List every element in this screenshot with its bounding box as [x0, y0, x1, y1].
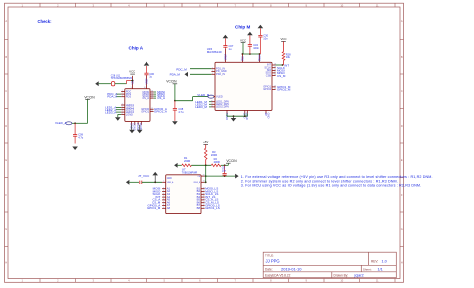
svg-text:TITLE:: TITLE:	[265, 254, 274, 258]
svg-text:VREF_A: VREF_A	[167, 181, 174, 184]
svg-text:100n: 100n	[253, 46, 259, 50]
svg-text:2019-01-10: 2019-01-10	[281, 267, 302, 272]
chip M right pins SPI	[272, 64, 276, 66]
frame ticks sides	[5, 40, 404, 247]
wire OE row	[205, 175, 236, 177]
svg-text:1.0: 1.0	[382, 260, 387, 264]
svg-text:18: 18	[203, 187, 205, 189]
ground arrow left of R1	[174, 163, 178, 168]
chip M VDD pin	[241, 54, 243, 62]
svg-text:1: 1	[163, 181, 164, 183]
wire +5V to R3	[205, 144, 207, 148]
resistor R2	[211, 164, 221, 167]
svg-text:2: 2	[212, 67, 213, 69]
svg-text:15: 15	[203, 196, 205, 198]
chip A right pins GPIO	[150, 108, 154, 110]
svg-text:D: D	[5, 124, 7, 128]
svg-text:Check:: Check:	[38, 19, 52, 24]
ground below LGND	[115, 117, 121, 121]
chip A left pins LED	[121, 104, 125, 106]
wire VCCIN mid down	[174, 84, 176, 101]
svg-text:GPIO2: GPIO2	[263, 87, 271, 91]
wire MOSI	[154, 91, 156, 93]
svg-text:5: 5	[163, 196, 164, 198]
frame ticks top	[40, 3, 395, 7]
svg-text:CS_A: CS_A	[157, 96, 165, 100]
svg-text:200R: 200R	[214, 160, 220, 164]
svg-text:8: 8	[122, 113, 123, 115]
svg-text:PDC_M: PDC_M	[176, 68, 187, 72]
svg-text:jcjar2: jcjar2	[354, 274, 364, 278]
wire arrow to cap	[129, 181, 139, 183]
svg-text:PD2_IN: PD2_IN	[216, 72, 225, 76]
frame ticks bottom	[40, 279, 395, 283]
svg-text:5: 5	[241, 60, 242, 62]
svg-text:GND: GND	[167, 178, 172, 180]
svg-text:1/1: 1/1	[378, 268, 383, 272]
svg-text:C: C	[401, 89, 403, 93]
junction VLED_A	[74, 122, 76, 124]
ground chip M bottom	[233, 116, 235, 118]
wire chip M gnd bus	[226, 114, 228, 117]
chip A right pins SPI	[150, 91, 154, 93]
svg-text:4.7u: 4.7u	[178, 110, 184, 114]
wire C28 to U11	[115, 83, 127, 85]
op: chip M section	[170, 25, 292, 122]
capacitor C30	[259, 28, 261, 35]
svg-text:Drawn By:: Drawn By:	[334, 274, 349, 278]
resistor R3	[204, 148, 207, 159]
svg-text:17: 17	[203, 190, 205, 192]
svg-text:3: 3	[122, 95, 123, 97]
svg-text:4: 4	[163, 193, 164, 195]
svg-text:REV:: REV:	[371, 260, 378, 264]
svg-text:LGND: LGND	[126, 112, 133, 116]
svg-text:Date:: Date:	[265, 267, 273, 271]
svg-text:B8: B8	[197, 206, 201, 210]
svg-text:10: 10	[144, 87, 146, 89]
svg-text:A8: A8	[167, 206, 171, 210]
svg-text:19: 19	[274, 66, 276, 68]
wire R2 to VCCIN	[221, 164, 228, 166]
chip A bottom pins	[131, 121, 133, 124]
chip M VREF pin	[224, 49, 226, 63]
wire from arrow to C28	[99, 83, 112, 85]
wire R3 to rail	[205, 160, 207, 166]
capacitor C06	[146, 66, 148, 73]
wire VREF_B row	[205, 181, 206, 183]
notes text	[241, 175, 433, 187]
wire LED1_M	[209, 101, 211, 103]
chip A left pins PD	[121, 91, 125, 93]
resistor R28	[282, 52, 285, 61]
svg-text:G: G	[5, 227, 7, 231]
capacitor C09	[74, 123, 76, 134]
svg-text:H: H	[401, 261, 403, 265]
svg-text:CS_M: CS_M	[277, 74, 286, 78]
ground arrow right of C8	[235, 174, 239, 179]
svg-text:TXB0108PWR: TXB0108PWR	[182, 171, 198, 174]
capacitor C08	[174, 101, 176, 109]
svg-text:10k: 10k	[286, 55, 291, 59]
capacitor C28 (series)	[111, 82, 114, 86]
svg-text:GPIO2_M: GPIO2_M	[277, 88, 291, 92]
svg-text:20: 20	[274, 64, 276, 66]
sheet frame inner	[8, 7, 400, 279]
svg-text:D: D	[401, 124, 403, 128]
svg-text:C: C	[5, 89, 7, 93]
wire CS_A	[154, 97, 156, 99]
svg-text:19: 19	[203, 181, 205, 183]
svg-text:16: 16	[274, 74, 276, 76]
capacitor C8	[224, 165, 226, 173]
svg-text:9: 9	[212, 95, 213, 97]
IC U15 chip M body	[215, 62, 272, 110]
svg-text:3: 3	[212, 70, 213, 72]
svg-text:VREF: VREF	[225, 53, 227, 60]
wire VLED_M step	[192, 97, 194, 101]
svg-text:Sheet:: Sheet:	[363, 267, 372, 271]
svg-text:12: 12	[211, 106, 213, 108]
svg-text:Chip M: Chip M	[235, 24, 250, 29]
svg-text:GPIO1_M: GPIO1_M	[147, 206, 161, 210]
svg-text:E: E	[5, 158, 7, 162]
chip A VREF pin	[146, 75, 148, 89]
wire MISO	[154, 93, 156, 95]
ground above C34	[247, 32, 253, 36]
svg-text:EasyEDA V5.8.22: EasyEDA V5.8.22	[265, 274, 291, 278]
chip A VDD pin	[132, 76, 134, 89]
svg-text:VLED_M: VLED_M	[197, 93, 210, 97]
ground arrow left	[95, 81, 99, 86]
svg-text:9: 9	[131, 87, 132, 89]
svg-text:17: 17	[274, 72, 276, 74]
wire LED2_A	[116, 109, 121, 111]
wire VCC bus	[242, 53, 259, 55]
svg-text:A: A	[5, 19, 7, 23]
resistor R1	[182, 164, 192, 167]
svg-text:LED3_A: LED3_A	[105, 110, 116, 114]
svg-text:9: 9	[163, 207, 164, 209]
wire R1 to junction	[191, 164, 211, 166]
svg-text:TPS7A0518PDBVR: TPS7A0518PDBVR	[111, 77, 132, 80]
ground above C06	[144, 62, 150, 66]
svg-text:PDS: PDS	[126, 95, 132, 99]
svg-text:VCC: VCC	[240, 39, 246, 43]
svg-text:7: 7	[163, 201, 164, 203]
svg-text:13: 13	[274, 88, 276, 90]
svg-text:GPIO1_LS: GPIO1_LS	[205, 206, 220, 210]
wire VCC to R28	[283, 41, 285, 51]
title block	[263, 252, 396, 278]
ground arrow left of PDA_M	[185, 72, 189, 77]
wire VLED_M horizontal	[175, 100, 193, 102]
ground below C08	[172, 121, 178, 125]
op: level shifter section	[126, 140, 237, 213]
wire VCCIN down	[87, 99, 89, 123]
svg-text:13: 13	[203, 201, 205, 203]
svg-text:CSB: CSB	[266, 73, 272, 77]
svg-text:11: 11	[203, 207, 205, 209]
svg-text:6: 6	[163, 199, 164, 201]
svg-text:VCC: VCC	[280, 37, 286, 41]
svg-text:MAX86140: MAX86140	[207, 50, 222, 54]
wire R28 to INT	[283, 60, 285, 65]
svg-text:G: G	[401, 227, 403, 231]
ground above C30	[258, 25, 264, 29]
svg-text:GPIO1: GPIO1	[141, 109, 149, 113]
wire INT to R28	[276, 64, 283, 66]
ground arrow left of C	[126, 180, 129, 185]
wire cap to VREF_A	[142, 181, 162, 183]
chip M VLED pin	[214, 96, 216, 98]
svg-text:LED3_DRV: LED3_DRV	[216, 105, 229, 109]
svg-text:A: A	[401, 19, 403, 23]
IC U11 chip A body	[125, 89, 150, 122]
svg-text:13: 13	[151, 97, 153, 99]
svg-text:200R: 200R	[184, 159, 190, 163]
svg-text:VCCIN: VCCIN	[84, 95, 95, 99]
svg-text:10n: 10n	[222, 168, 227, 172]
junction VLED_M	[174, 100, 176, 102]
wire SCLK	[154, 95, 156, 97]
netport VLED_A ellipse	[66, 122, 72, 125]
svg-text:200R: 200R	[211, 153, 217, 157]
chip M left pins PD	[211, 68, 215, 70]
op: chip A section	[95, 62, 167, 133]
wire LED1_A	[116, 106, 121, 108]
svg-text:8: 8	[163, 204, 164, 206]
svg-text:20: 20	[203, 174, 205, 176]
svg-text:16: 16	[203, 193, 205, 195]
svg-text:JJ PPG: JJ PPG	[266, 259, 280, 264]
wire PDA_M	[190, 73, 211, 75]
wire VLED_A horizontal	[72, 122, 88, 124]
wire PDC_M	[190, 68, 211, 70]
wire LGND	[118, 113, 121, 115]
svg-text:GPIO1_A: GPIO1_A	[154, 109, 167, 113]
svg-text:14: 14	[203, 199, 205, 201]
svg-text:LED3_M: LED3_M	[195, 105, 207, 109]
power arrow JT_VCC	[152, 172, 158, 176]
svg-text:VCC: VCC	[129, 70, 135, 74]
chip M bottom pins	[226, 110, 228, 113]
ground below chip A pin 2	[139, 125, 141, 130]
svg-text:H: H	[5, 261, 7, 265]
svg-text:6: 6	[258, 60, 259, 62]
wire rail down to OE	[205, 165, 207, 182]
chip M VDDA pin	[259, 54, 261, 62]
ground below C09	[72, 147, 78, 151]
chip M right pins GPIO	[272, 86, 276, 88]
svg-text:4: 4	[212, 73, 213, 75]
wire LED3_A	[116, 111, 121, 113]
wire VCC stem	[242, 43, 244, 54]
svg-text:+5V: +5V	[203, 140, 208, 144]
U7 right pins	[201, 175, 205, 177]
svg-text:11: 11	[151, 110, 153, 112]
svg-text:CS_A: CS_A	[142, 96, 149, 100]
svg-text:2: 2	[163, 187, 164, 189]
wire LED3_M	[209, 106, 211, 108]
capacitor C34	[249, 35, 251, 44]
ground above C07	[223, 35, 229, 39]
svg-text:Chip A: Chip A	[129, 45, 144, 50]
ground below chip A pin 1	[131, 125, 133, 130]
capacitor C07	[224, 38, 226, 45]
svg-text:VDD: VDD	[242, 56, 244, 61]
netport VLED_M ellipse	[208, 95, 214, 98]
svg-text:1: 1	[224, 60, 225, 62]
wire LED2_M	[209, 103, 211, 105]
svg-text:PDA_A: PDA_A	[107, 95, 117, 99]
svg-text:B: B	[401, 55, 403, 59]
svg-text:12: 12	[203, 204, 205, 206]
svg-text:PDA_M: PDA_M	[170, 72, 181, 76]
svg-text:GND: GND	[266, 113, 270, 119]
svg-text:VLED_A: VLED_A	[55, 121, 67, 125]
chip M left pins LED	[211, 101, 215, 103]
svg-text:VLED: VLED	[216, 94, 223, 98]
capacitor series near U7	[139, 181, 141, 184]
U7 left pins	[162, 181, 166, 183]
svg-text:VCCIN: VCCIN	[226, 159, 237, 163]
wire PDC_A	[116, 93, 121, 95]
svg-text:E: E	[401, 158, 403, 162]
wire arrow to R1	[178, 164, 182, 166]
wire PDA_A	[116, 96, 121, 98]
svg-text:3. For MCU using VCC as IO vol: 3. For MCU using VCC as IO voltage (1.8v…	[241, 183, 421, 187]
svg-text:VREF_B: VREF_B	[193, 182, 200, 184]
IC U7 body	[166, 175, 201, 214]
svg-text:JT_VCC: JT_VCC	[138, 174, 150, 178]
svg-text:B: B	[5, 55, 7, 59]
svg-text:VCCIN: VCCIN	[166, 80, 177, 84]
svg-text:VREF: VREF	[147, 78, 149, 85]
svg-text:4.7u: 4.7u	[78, 135, 84, 139]
svg-text:10n: 10n	[263, 36, 268, 40]
svg-text:3: 3	[163, 190, 164, 192]
svg-text:INT: INT	[284, 63, 289, 67]
svg-text:VDDA: VDDA	[259, 54, 262, 61]
